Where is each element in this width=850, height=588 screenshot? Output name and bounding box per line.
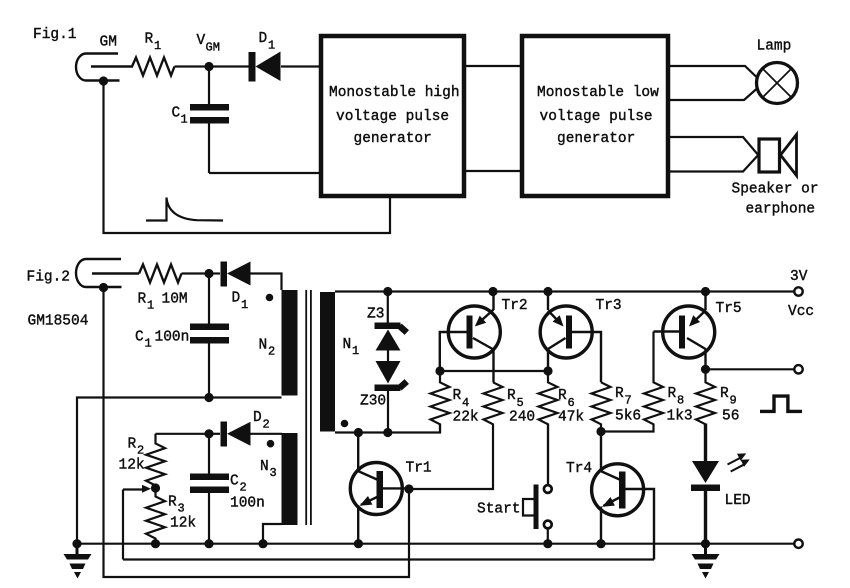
resistor R8 1k3	[644, 332, 663, 425]
svg-text:Lamp: Lamp	[757, 39, 792, 55]
junction dot R6 top / Tr3 collector	[543, 366, 552, 375]
svg-text:100n: 100n	[155, 330, 190, 346]
svg-text:R: R	[168, 495, 177, 511]
svg-text:5k6: 5k6	[615, 409, 641, 425]
resistor R1 (Fig.1)	[132, 58, 175, 76]
D2 label	[253, 410, 270, 432]
svg-text:Tr3: Tr3	[596, 298, 622, 314]
junction dot Tr1 collector	[354, 428, 363, 437]
wire N3 bottom to ground rail	[263, 524, 282, 544]
svg-text:voltage pulse: voltage pulse	[540, 109, 653, 125]
svg-text:3: 3	[178, 502, 185, 516]
N2 label	[259, 338, 276, 359]
node VGM junction dot	[204, 62, 213, 71]
R8 label	[667, 386, 693, 425]
wiper arrow to R2/R3 junction	[123, 485, 151, 560]
block U1: Monostable high voltage pulse generator	[321, 36, 464, 196]
R5 label	[507, 388, 535, 426]
svg-text:12k: 12k	[170, 516, 196, 532]
R1 label (Fig.1)	[145, 32, 162, 54]
svg-text:R: R	[145, 32, 154, 48]
svg-text:Tr2: Tr2	[502, 298, 528, 314]
N1 label	[343, 337, 360, 358]
svg-text:N: N	[343, 337, 352, 353]
pulse waveform symbol (Fig.1)	[146, 198, 223, 221]
capacitor C1 100n (Fig.2)	[190, 274, 229, 398]
speaker	[759, 135, 797, 176]
wire N1 bottom to R4 bottom	[335, 424, 440, 433]
svg-text:47k: 47k	[558, 410, 584, 426]
svg-text:Tr5: Tr5	[716, 301, 742, 317]
junction dot R2/R3 wiper node	[151, 483, 160, 492]
svg-text:R: R	[138, 292, 147, 308]
ground symbol left	[64, 544, 92, 579]
ground rail junction dots	[72, 539, 710, 548]
transformer winding N1	[320, 292, 335, 432]
transformer core	[306, 290, 311, 525]
transformer winding N2	[282, 290, 298, 396]
transistor Tr2	[440, 292, 501, 383]
svg-text:1: 1	[352, 344, 359, 358]
svg-text:100n: 100n	[230, 496, 265, 512]
N3 label	[260, 459, 277, 480]
resistor R1 10M (Fig.2)	[139, 265, 182, 283]
svg-text:1k3: 1k3	[667, 409, 693, 425]
svg-text:N: N	[259, 338, 268, 354]
mid rail: wiper to Tr4 base	[123, 558, 654, 560]
wire R1 to node VGM	[175, 65, 210, 67]
svg-text:C: C	[172, 106, 181, 122]
svg-text:GM: GM	[100, 35, 117, 51]
transistor Tr4	[592, 432, 654, 560]
3V Vcc terminal	[794, 287, 802, 295]
Tr1 base junction dot	[404, 484, 413, 493]
svg-text:D: D	[232, 291, 241, 307]
svg-text:1: 1	[181, 113, 188, 127]
transistor Tr5	[654, 292, 715, 370]
rail junction dots	[383, 287, 710, 296]
svg-text:R: R	[558, 388, 567, 404]
svg-text:6: 6	[568, 396, 575, 410]
junction dot D2/C2/R2	[204, 429, 213, 438]
LED light emission arrows	[728, 453, 750, 471]
svg-text:2: 2	[268, 345, 275, 359]
3V Vcc labels	[788, 269, 814, 320]
wire node VGM to D1	[209, 65, 250, 67]
capacitor C1 (Fig.1)	[190, 67, 229, 174]
svg-text:2: 2	[137, 444, 144, 458]
junction dot zener bottom	[383, 428, 392, 437]
svg-text:Speaker or: Speaker or	[732, 182, 819, 198]
svg-text:1: 1	[154, 39, 161, 53]
capacitor C2 100n	[190, 434, 229, 544]
transistor Tr3	[540, 292, 601, 383]
svg-text:generator: generator	[354, 131, 432, 147]
svg-text:GM18504: GM18504	[28, 314, 89, 330]
zener diode Z30	[375, 361, 407, 433]
square pulse symbol	[760, 396, 802, 411]
svg-text:1: 1	[268, 39, 275, 53]
R1 10M label	[138, 292, 188, 313]
svg-text:V: V	[197, 33, 206, 49]
svg-text:1: 1	[241, 298, 248, 312]
svg-text:R: R	[720, 386, 729, 402]
diode D1 (Fig.1)	[249, 52, 281, 82]
svg-text:R: R	[453, 388, 462, 404]
svg-text:9: 9	[730, 394, 737, 408]
3V supply rail	[335, 290, 794, 292]
svg-text:Fig.1: Fig.1	[33, 27, 77, 43]
GM cathode junction dot (Fig.2)	[99, 283, 108, 292]
svg-text:R: R	[615, 386, 624, 402]
ground symbol right	[692, 544, 720, 579]
svg-text:R: R	[668, 386, 677, 402]
R9 label	[720, 386, 739, 425]
N1 phase dot	[341, 420, 349, 428]
svg-text:LED: LED	[725, 493, 751, 509]
R4 label	[453, 388, 479, 426]
svg-text:2: 2	[263, 418, 270, 432]
Start pushbutton	[523, 424, 552, 544]
svg-text:Monostable low: Monostable low	[537, 85, 659, 101]
D1 label (Fig.2)	[232, 291, 249, 313]
R2 label	[119, 437, 145, 474]
svg-text:Vcc: Vcc	[788, 304, 814, 320]
resistor R2 12k	[146, 434, 209, 486]
node VGM label	[197, 33, 220, 55]
R3 label	[168, 495, 196, 532]
GM tube GM18504 (Fig.2)	[76, 259, 139, 287]
junction dot Tr5 collector / R9 top	[701, 365, 710, 374]
cross-coupling wire R4 node to Tr3 collector	[440, 370, 548, 372]
resistor R5 240	[409, 382, 503, 489]
Speaker or earphone label	[732, 182, 819, 218]
resistor R3 12k	[146, 488, 165, 544]
svg-text:R: R	[128, 437, 137, 453]
GM tube (Fig.1)	[76, 54, 133, 81]
svg-text:C: C	[230, 474, 239, 490]
diode D2	[209, 422, 282, 447]
svg-text:10M: 10M	[162, 292, 188, 308]
wire R7 node to R8 bottom	[601, 424, 654, 432]
wires block2 to speaker	[670, 137, 758, 172]
svg-text:Tr4: Tr4	[566, 461, 592, 477]
svg-text:12k: 12k	[119, 458, 145, 474]
output terminal	[794, 365, 802, 373]
ground terminal (right)	[794, 540, 802, 548]
R7 label	[615, 386, 641, 425]
resistor R4 22k	[431, 371, 450, 433]
node dot R1/D1/C1	[204, 269, 213, 278]
N2 phase dot	[266, 294, 274, 302]
svg-text:D: D	[259, 31, 268, 47]
wire D1 to block1	[281, 65, 321, 67]
N3 phase dot	[267, 440, 275, 448]
svg-text:8: 8	[677, 394, 684, 408]
wire R1 to node	[182, 272, 210, 274]
svg-text:3: 3	[270, 466, 277, 480]
junction dot C1 bottom	[204, 393, 213, 402]
svg-text:56: 56	[722, 409, 739, 425]
svg-text:voltage pulse: voltage pulse	[336, 109, 449, 125]
resistor R9 56	[696, 369, 715, 424]
wire between zeners	[387, 351, 389, 362]
svg-text:C: C	[135, 330, 144, 346]
C1 100n label	[135, 330, 189, 351]
svg-text:D: D	[253, 410, 262, 426]
C1 label (Fig.1)	[172, 106, 188, 127]
svg-text:1: 1	[145, 337, 152, 351]
resistor R7 5k6	[592, 382, 611, 431]
diode D1 (Fig.2)	[209, 262, 282, 291]
svg-text:GM: GM	[206, 41, 220, 55]
svg-text:N: N	[260, 459, 269, 475]
svg-text:generator: generator	[557, 131, 635, 147]
D1 label (Fig.1)	[259, 31, 276, 53]
ground rail	[77, 543, 794, 545]
wire block1 to block2 lower	[466, 170, 520, 172]
lamp	[757, 63, 798, 104]
transformer winding N3	[282, 433, 298, 525]
svg-text:Start: Start	[477, 502, 521, 518]
R6 label	[558, 388, 584, 426]
zener diode Z3	[375, 292, 407, 351]
svg-text:240: 240	[509, 410, 535, 426]
wire C1 bottom to block1 lower input	[209, 172, 321, 174]
resistor R6 47k	[539, 371, 558, 485]
svg-text:Z3: Z3	[367, 307, 384, 323]
svg-text:7: 7	[625, 394, 632, 408]
svg-text:5: 5	[517, 396, 524, 410]
GM cathode junction dot (Fig.1)	[99, 76, 108, 85]
wire N2 bottom / C1 bottom to left drop	[77, 398, 282, 544]
svg-text:R: R	[507, 388, 516, 404]
svg-text:1: 1	[147, 299, 154, 313]
junction dot R7 bottom / Tr4 collector	[596, 427, 605, 436]
wire GM cathode down, right along bottom, up to Tr1 base	[104, 288, 410, 578]
svg-text:Tr1: Tr1	[406, 461, 432, 477]
svg-text:Z30: Z30	[360, 394, 386, 410]
svg-text:4: 4	[462, 396, 469, 410]
block U2: Monostable low voltage pulse generator	[522, 36, 668, 196]
junction dot R4 top / Tr2 base	[435, 366, 444, 375]
svg-text:22k: 22k	[453, 410, 479, 426]
svg-text:Monostable high: Monostable high	[329, 85, 460, 101]
svg-text:3V: 3V	[790, 269, 808, 285]
transistor Tr1	[350, 433, 409, 544]
svg-text:2: 2	[240, 481, 247, 495]
wires block2 to lamp	[670, 66, 757, 100]
wire Tr5 collector to output terminal	[706, 368, 795, 370]
svg-text:Fig.2: Fig.2	[27, 270, 71, 286]
wire GM cathode down and right to below block1	[104, 81, 391, 233]
LED	[691, 424, 720, 544]
C2 label	[230, 474, 265, 512]
svg-text:earphone: earphone	[746, 202, 816, 218]
wire block1 to block2 upper	[466, 65, 520, 67]
